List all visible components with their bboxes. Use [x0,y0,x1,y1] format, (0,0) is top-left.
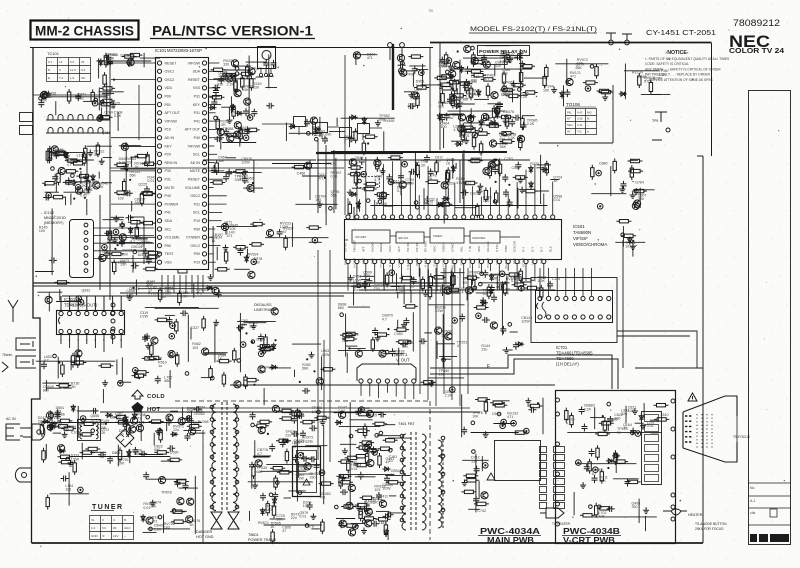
diode [99,58,103,66]
ground [503,118,509,124]
svg-text:100: 100 [315,198,321,202]
vertical wire x203 [202,430,204,543]
resistor [122,55,137,58]
svg-text:47: 47 [282,529,286,533]
IC501 bottom internal labels [344,257,544,270]
wire [63,387,72,389]
resistor [365,451,368,466]
resistor [300,420,315,423]
svg-text:FM OUT: FM OUT [353,240,357,252]
capacitor [249,462,255,470]
electrolytic capacitor [419,70,425,76]
transistor [441,182,448,189]
wire [462,153,464,198]
ground [309,352,315,358]
resistor [98,103,113,106]
wire [266,464,321,466]
resistor [523,91,538,94]
junction [367,142,369,144]
wire [102,93,114,95]
svg-text:RESET: RESET [188,178,201,182]
wire [415,162,417,176]
ground [380,168,386,174]
wire [502,349,512,351]
svg-text:AFC: AFC [361,257,365,264]
svg-text:680: 680 [338,306,344,310]
FBT right pins [441,436,445,512]
pin [385,350,389,354]
svg-text:330: 330 [495,64,501,68]
electrolytic capacitor [476,313,482,319]
wire [450,68,532,70]
capacitor [226,169,232,177]
resistor [249,243,264,246]
pin [172,509,176,513]
transistor [367,460,374,467]
wire [139,454,163,456]
svg-text:CONT: CONT [522,258,526,267]
resistor [490,401,505,404]
long bus A [33,282,452,284]
capacitor [408,103,416,109]
capacitor [439,115,445,123]
wire [132,255,134,273]
diode [495,111,499,119]
resistor [595,432,610,435]
resistor [499,115,514,118]
resistor [241,75,244,90]
wire [248,56,250,119]
vertical wire x440 [439,42,441,150]
diode [383,467,391,471]
capacitor [143,472,149,480]
wire [349,116,351,147]
diode [628,237,632,245]
T8601 left pins [210,405,214,509]
capacitor [75,93,81,101]
resistor [463,129,478,132]
junction [452,89,454,91]
resistor [616,220,631,223]
svg-text:56K: 56K [302,367,309,371]
capacitor [142,334,148,342]
V-CRT left edge pins [556,398,560,526]
electrolytic capacitor [170,323,176,329]
capacitor [461,190,469,196]
electrolytic capacitor [258,351,264,357]
resistor [277,471,292,474]
bus wire x139 [138,85,140,140]
capacitor [277,229,283,237]
electrolytic capacitor [319,470,325,476]
junction [79,168,81,170]
IF lower components cluster [210,156,263,194]
diode [529,181,533,189]
svg-text:680: 680 [135,201,141,205]
pin [375,434,379,438]
chroma out components cluster [474,268,533,353]
svg-text:22u: 22u [173,428,179,432]
revision column [749,91,791,545]
resistor [621,234,636,237]
wire [442,314,444,368]
diode [529,165,533,173]
resistor [48,146,51,161]
capacitor [362,506,370,512]
svg-text:680: 680 [379,118,385,122]
diode [480,301,488,305]
resistor [495,190,498,205]
wire [77,406,79,438]
wire [639,188,641,208]
svg-text:P50: P50 [194,252,200,256]
wire [463,57,523,59]
diode [52,421,56,429]
resistor [63,170,78,173]
resistor [252,464,255,479]
wire [645,516,647,531]
svg-text:C742: C742 [477,509,486,513]
wire [441,272,465,274]
wire [246,61,267,63]
junction [58,361,60,363]
capacitor [515,54,523,60]
resistor [638,73,641,88]
svg-text:330: 330 [223,63,229,67]
capacitor [184,433,190,441]
horizontal output components cluster [334,402,411,540]
resistor [492,105,495,120]
resistor [475,132,490,135]
PWC-4034B underline [562,535,621,537]
CRT warning triangle [688,393,697,401]
wire [359,289,555,291]
resistor [591,165,594,180]
resistor [306,226,321,229]
wire [479,282,509,284]
sound trap components cluster [397,54,443,110]
wire [53,432,61,434]
ground [488,288,494,294]
wire [355,476,376,478]
V-CRT edge pins [671,399,675,459]
resistor [96,142,99,157]
ground [408,92,414,98]
transistor [271,308,278,315]
junction [348,347,350,349]
svg-text:P31: P31 [165,178,171,182]
svg-text:4.43: 4.43 [577,111,583,115]
svg-text:4.7: 4.7 [130,239,135,243]
svg-text:1K: 1K [446,162,451,166]
CRT top components cluster [565,402,670,436]
electrolytic capacitor [502,86,508,92]
transistor [58,167,65,174]
svg-text:CODE: SAFETY IS CRITICAL: CODE: SAFETY IS CRITICAL [645,62,689,66]
svg-text:471: 471 [320,496,326,500]
resistor [520,65,535,68]
ground [519,187,525,193]
transistor [466,287,473,294]
svg-text:471: 471 [507,415,513,419]
resistor [396,340,411,343]
svg-text:10K: 10K [599,515,606,519]
bus wire y160 [317,159,530,161]
resistor [233,246,248,249]
resistor [461,128,464,143]
transistor [339,411,346,418]
capacitor [211,99,217,107]
capacitor [243,108,249,116]
resistor [108,228,111,243]
svg-text:100: 100 [441,125,447,129]
diode [209,106,217,110]
svg-text:4.7: 4.7 [382,317,387,321]
resistor [545,65,548,80]
transistor [186,516,193,523]
svg-text:103: 103 [65,488,71,492]
resistor [498,161,501,176]
svg-text:C780: C780 [653,76,662,80]
resistor [258,348,273,351]
junction [302,453,304,455]
pin [298,491,302,495]
resistor [463,181,478,184]
svg-text:IC102: IC102 [44,211,54,215]
transistor [166,414,173,421]
wire [106,83,108,115]
svg-text:12V: 12V [113,534,118,538]
resistor [79,433,94,436]
wire [170,410,178,412]
svg-text:L125: L125 [552,277,560,281]
resistor [376,157,379,172]
pin [235,67,239,71]
capacitor [358,472,364,480]
ground [45,91,51,97]
capacitor [383,513,391,519]
svg-text:OSC2: OSC2 [190,194,200,198]
svg-text:471: 471 [570,75,576,79]
svg-text:3.3K: 3.3K [54,425,62,429]
capacitor [43,195,51,201]
svg-text:103: 103 [243,180,249,184]
capacitor [251,109,257,117]
junction [457,50,459,52]
svg-text:1/2W: 1/2W [296,477,305,481]
svg-text:1/2W: 1/2W [405,182,414,186]
wire [650,419,658,421]
wire [254,440,256,458]
diode [231,104,235,112]
svg-text:0.01: 0.01 [469,274,476,278]
svg-text:0.01: 0.01 [644,80,651,84]
ground [643,507,649,513]
transistor [212,287,219,294]
wire [482,124,499,126]
pin [237,359,241,363]
resistor [400,276,415,279]
svg-text:VL: VL [91,518,95,522]
wire [102,219,123,221]
wire [46,387,62,389]
wire [520,205,527,207]
resistor [292,165,307,168]
capacitor [607,506,615,512]
transistor [129,426,136,433]
capacitor [359,157,365,165]
transistor [444,287,451,294]
resistor [348,166,363,169]
resistor [474,502,489,505]
electrolytic capacitor [450,387,456,393]
ground [355,504,361,510]
pin [51,167,55,171]
svg-text:VOLUME: VOLUME [165,236,181,240]
resistor [457,82,472,85]
capacitor [489,285,495,293]
left vertical bus [109,60,111,300]
pin [621,233,625,237]
transistor [365,520,372,527]
IC101 body [156,58,209,270]
svg-text:1/2W: 1/2W [521,319,530,323]
transistor [310,117,317,124]
wire [143,53,145,68]
section outline top line [430,42,712,44]
svg-text:SYNC: SYNC [433,257,437,266]
svg-text:680: 680 [43,389,49,393]
svg-text:471: 471 [196,292,202,296]
svg-text:KILLER: KILLER [486,241,490,252]
resistor [266,501,269,516]
svg-text:VIF IN: VIF IN [406,243,410,252]
wire [166,423,168,432]
wire [576,463,637,465]
ground [477,183,483,189]
svg-text:1. PARTS OF NO EQUIVALENT QUAL: 1. PARTS OF NO EQUIVALENT QUALITY AT ALL… [645,57,730,61]
revision table line [749,507,791,509]
electrolytic capacitor [76,296,82,302]
svg-text:330: 330 [253,86,259,90]
resistor [583,81,598,84]
pin [446,70,450,74]
IC501 internal block labels [355,234,485,240]
svg-text:680: 680 [164,379,170,383]
wire [615,241,645,243]
svg-text:HOT GND: HOT GND [196,535,214,539]
svg-text:M37220M3-167SP: M37220M3-167SP [167,48,202,53]
svg-text:V-CRT PWB: V-CRT PWB [563,535,615,545]
resistor [234,77,237,92]
pin [473,286,477,290]
bridge diamond [116,429,134,447]
diode [105,61,113,65]
resistor [216,116,219,131]
svg-text:1u: 1u [158,364,162,368]
power lower components cluster [141,472,200,534]
revision table dark cells [750,534,757,542]
svg-text:0.01: 0.01 [147,179,154,183]
wire [496,275,498,290]
junction [274,339,276,341]
svg-text:4.7: 4.7 [397,189,402,193]
wire [205,352,228,354]
junction [126,169,128,171]
wire [253,456,270,458]
svg-text:VSS: VSS [193,86,201,90]
keyboard components cluster [97,72,124,135]
wire [591,193,626,195]
transistor [491,92,498,99]
pin [53,354,57,358]
resistor [46,148,49,163]
diode [350,192,358,196]
transistor [146,517,153,524]
electrolytic capacitor [451,95,457,101]
wire [240,324,247,326]
svg-text:680: 680 [256,470,262,474]
resistor [348,172,363,175]
transistor [489,140,496,147]
svg-text:V RAMP: V RAMP [406,258,410,270]
svg-text:680: 680 [154,448,160,452]
capacitor [155,376,161,384]
wire [149,359,162,361]
capacitor [216,290,222,298]
wire [68,472,70,505]
pin [471,46,475,50]
top pin B wire [401,48,403,60]
electrolytic capacitor [240,342,246,348]
electrolytic capacitor [499,271,505,277]
svg-text:RESET: RESET [165,61,178,65]
svg-text:TINT: TINT [504,245,508,252]
svg-text:100: 100 [374,287,380,291]
svg-text:10K: 10K [472,415,479,419]
resistor [354,171,357,186]
capacitor [513,115,521,121]
vertical wires below IC201 [318,250,330,462]
resistor [150,342,153,357]
svg-text:GND: GND [459,257,463,265]
diode [477,89,481,97]
capacitor [212,85,220,91]
wire [51,412,53,430]
junction [240,127,242,129]
wire [120,168,155,170]
tuner interface components cluster [96,53,160,79]
diode [49,424,53,432]
svg-text:10K: 10K [230,227,237,231]
capacitor [509,119,515,127]
diode [612,454,620,458]
pin [169,353,173,357]
resistor [414,86,429,89]
wire [624,64,626,100]
resistor [170,510,185,513]
svg-text:--: -- [587,123,589,127]
svg-text:SIF FM: SIF FM [398,236,408,240]
capacitor [419,338,427,344]
resistor [91,89,94,104]
capacitor [625,479,631,487]
wire [383,353,404,355]
IC101 left pins [157,61,161,264]
svg-text:TO HEATER: TO HEATER [552,522,571,526]
wire [339,425,381,427]
resistor [114,415,129,418]
